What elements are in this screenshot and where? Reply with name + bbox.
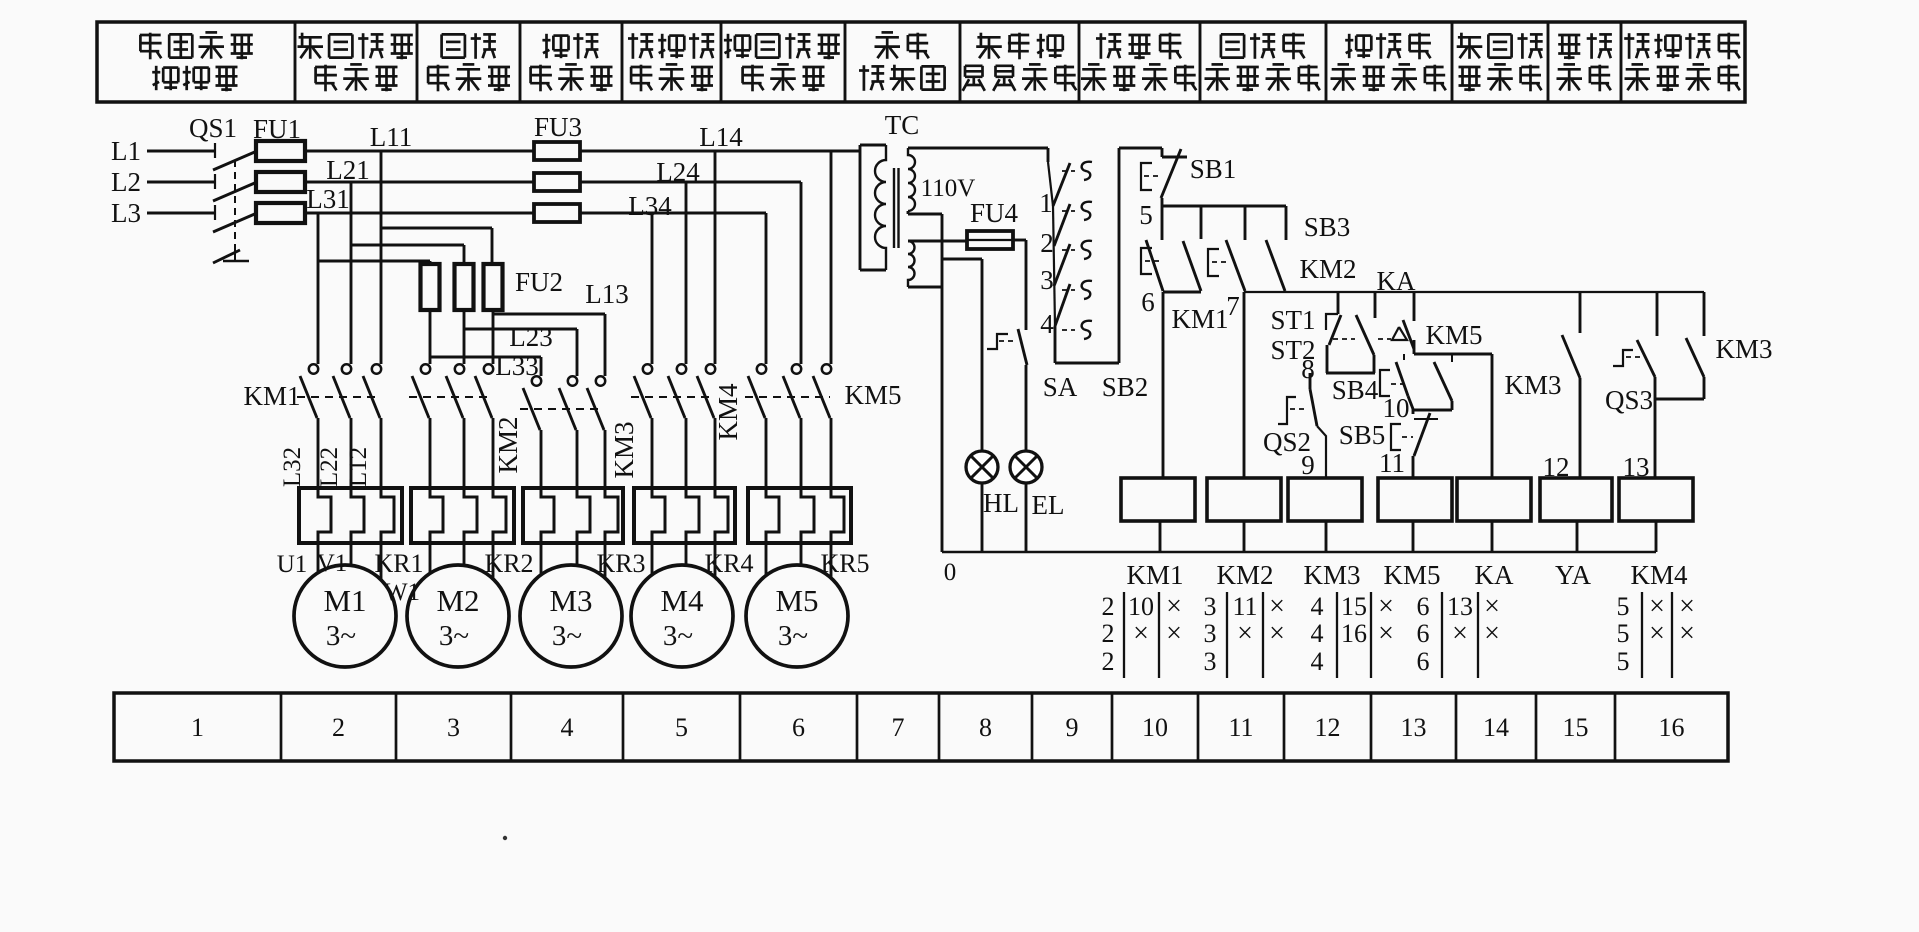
svg-text:L32: L32 <box>279 447 306 487</box>
svg-text:×: × <box>1649 618 1665 649</box>
svg-text:×: × <box>1133 618 1149 649</box>
svg-text:2: 2 <box>1102 647 1115 676</box>
svg-text:KM5: KM5 <box>1383 560 1440 590</box>
svg-text:TC: TC <box>885 110 920 140</box>
svg-text:M4: M4 <box>660 583 704 618</box>
svg-text:KM1: KM1 <box>243 381 300 411</box>
svg-text:16: 16 <box>1659 713 1685 742</box>
svg-text:YA: YA <box>1555 560 1592 590</box>
svg-text:×: × <box>1166 618 1182 649</box>
svg-text:10: 10 <box>1128 592 1154 621</box>
svg-text:8: 8 <box>1301 354 1315 384</box>
svg-text:M1: M1 <box>323 583 366 618</box>
svg-text:KM3: KM3 <box>1504 370 1561 400</box>
svg-text:M2: M2 <box>436 583 479 618</box>
svg-text:13: 13 <box>1447 592 1473 621</box>
svg-text:KA: KA <box>1377 266 1416 296</box>
svg-text:2: 2 <box>1102 592 1115 621</box>
svg-text:SB3: SB3 <box>1304 212 1351 242</box>
svg-text:QS1: QS1 <box>189 113 237 143</box>
svg-text:6: 6 <box>1141 287 1155 317</box>
svg-text:5: 5 <box>1617 647 1630 676</box>
svg-text:14: 14 <box>1483 713 1509 742</box>
svg-text:QS3: QS3 <box>1605 385 1653 415</box>
svg-text:SB4: SB4 <box>1332 375 1379 405</box>
svg-text:KM3: KM3 <box>609 421 639 478</box>
svg-text:EL: EL <box>1032 490 1065 520</box>
svg-text:×: × <box>1237 618 1253 649</box>
svg-text:16: 16 <box>1341 619 1367 648</box>
svg-text:L22: L22 <box>316 447 343 487</box>
svg-text:KM1: KM1 <box>1171 304 1228 334</box>
svg-text:×: × <box>1378 618 1394 649</box>
svg-text:5: 5 <box>1617 619 1630 648</box>
svg-text:SB2: SB2 <box>1102 372 1149 402</box>
svg-text:4: 4 <box>1311 619 1324 648</box>
svg-text:L24: L24 <box>656 157 700 187</box>
svg-text:13: 13 <box>1401 713 1427 742</box>
svg-text:L13: L13 <box>585 279 629 309</box>
svg-text:1: 1 <box>191 713 204 742</box>
svg-text:U1: U1 <box>277 551 308 578</box>
svg-text:4: 4 <box>1040 309 1054 339</box>
svg-text:4: 4 <box>1311 647 1324 676</box>
svg-text:6: 6 <box>792 713 805 742</box>
svg-text:3~: 3~ <box>663 620 693 652</box>
svg-text:5: 5 <box>1617 592 1630 621</box>
svg-text:3: 3 <box>1204 647 1217 676</box>
svg-text:×: × <box>1452 618 1468 649</box>
svg-text:SB5: SB5 <box>1339 420 1386 450</box>
svg-text:L23: L23 <box>509 322 553 352</box>
svg-text:5: 5 <box>675 713 688 742</box>
svg-text:L2: L2 <box>111 167 141 197</box>
svg-text:L11: L11 <box>370 122 413 152</box>
svg-text:2: 2 <box>1040 228 1054 258</box>
svg-text:1: 1 <box>1039 188 1053 218</box>
svg-text:KA: KA <box>1475 560 1514 590</box>
svg-text:SB1: SB1 <box>1190 154 1237 184</box>
svg-text:11: 11 <box>1232 592 1257 621</box>
svg-text:HL: HL <box>983 488 1019 518</box>
svg-text:L21: L21 <box>326 155 370 185</box>
svg-text:L12: L12 <box>345 447 372 487</box>
svg-text:3: 3 <box>1204 619 1217 648</box>
svg-text:FU3: FU3 <box>534 112 582 142</box>
svg-text:M5: M5 <box>775 583 818 618</box>
svg-text:KM5: KM5 <box>1425 320 1482 350</box>
svg-text:7: 7 <box>892 713 905 742</box>
svg-text:110V: 110V <box>921 175 976 202</box>
svg-text:SA: SA <box>1043 372 1078 402</box>
svg-text:×: × <box>1484 618 1500 649</box>
svg-text:FU4: FU4 <box>970 198 1019 228</box>
svg-text:L3: L3 <box>111 198 141 228</box>
svg-text:3: 3 <box>1204 592 1217 621</box>
svg-text:KM4: KM4 <box>713 383 743 441</box>
svg-text:2: 2 <box>1102 619 1115 648</box>
svg-text:5: 5 <box>1139 200 1153 230</box>
svg-text:15: 15 <box>1563 713 1589 742</box>
svg-text:11: 11 <box>1228 713 1253 742</box>
svg-text:9: 9 <box>1301 450 1315 480</box>
svg-text:KM4: KM4 <box>1630 560 1688 590</box>
svg-text:FU2: FU2 <box>515 267 563 297</box>
svg-text:3~: 3~ <box>552 620 582 652</box>
svg-text:6: 6 <box>1417 647 1430 676</box>
svg-text:×: × <box>1269 618 1285 649</box>
svg-text:L1: L1 <box>111 136 141 166</box>
svg-text:7: 7 <box>1226 291 1240 321</box>
svg-text:L31: L31 <box>306 184 350 214</box>
svg-text:KM5: KM5 <box>844 380 901 410</box>
svg-text:KM2: KM2 <box>1299 254 1356 284</box>
svg-text:3: 3 <box>447 713 460 742</box>
svg-text:8: 8 <box>979 713 992 742</box>
svg-text:×: × <box>1679 618 1695 649</box>
svg-text:ST1: ST1 <box>1270 305 1315 335</box>
svg-text:KM3: KM3 <box>1715 334 1772 364</box>
svg-text:M3: M3 <box>549 583 592 618</box>
svg-text:L33: L33 <box>495 351 539 381</box>
svg-text:3~: 3~ <box>778 620 808 652</box>
svg-text:6: 6 <box>1417 619 1430 648</box>
svg-text:L14: L14 <box>699 122 743 152</box>
svg-text:3: 3 <box>1040 265 1054 295</box>
svg-text:10: 10 <box>1142 713 1168 742</box>
svg-text:15: 15 <box>1341 592 1367 621</box>
svg-text:3~: 3~ <box>326 620 356 652</box>
svg-text:KM2: KM2 <box>493 416 523 473</box>
svg-text:6: 6 <box>1417 592 1430 621</box>
svg-text:4: 4 <box>1311 592 1324 621</box>
svg-text:4: 4 <box>561 713 574 742</box>
svg-text:KM1: KM1 <box>1126 560 1183 590</box>
svg-text:11: 11 <box>1379 448 1405 478</box>
svg-text:2: 2 <box>332 713 345 742</box>
svg-text:9: 9 <box>1066 713 1079 742</box>
svg-text:12: 12 <box>1315 713 1341 742</box>
svg-text:10: 10 <box>1383 393 1410 423</box>
svg-text:0: 0 <box>944 559 957 586</box>
svg-text:L34: L34 <box>628 191 672 221</box>
svg-text:KM2: KM2 <box>1216 560 1273 590</box>
svg-text:3~: 3~ <box>439 620 469 652</box>
svg-text:KM3: KM3 <box>1303 560 1360 590</box>
